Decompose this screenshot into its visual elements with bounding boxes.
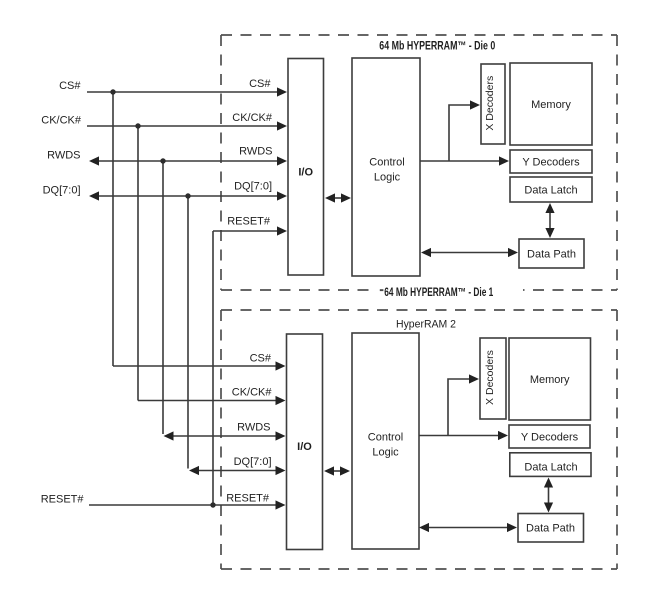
svg-text:Y Decoders: Y Decoders bbox=[521, 432, 579, 444]
svg-text:RWDS: RWDS bbox=[47, 150, 80, 162]
svg-text:Data Path: Data Path bbox=[527, 249, 576, 261]
svg-text:CK/CK#: CK/CK# bbox=[232, 112, 273, 124]
svg-text:CK/CK#: CK/CK# bbox=[41, 115, 82, 127]
svg-text:RWDS: RWDS bbox=[239, 146, 272, 158]
svg-text:CS#: CS# bbox=[249, 78, 271, 90]
svg-text:Logic: Logic bbox=[372, 447, 399, 459]
svg-text:Control: Control bbox=[368, 432, 403, 444]
svg-text:X Decoders: X Decoders bbox=[484, 76, 496, 131]
svg-text:64 Mb HYPERRAM™ - Die 0: 64 Mb HYPERRAM™ - Die 0 bbox=[379, 40, 495, 53]
svg-text:64 Mb HYPERRAM™ - Die 1: 64 Mb HYPERRAM™ - Die 1 bbox=[384, 286, 493, 299]
svg-text:RWDS: RWDS bbox=[237, 422, 270, 434]
svg-text:RESET#: RESET# bbox=[226, 493, 270, 505]
svg-text:Control: Control bbox=[369, 157, 404, 169]
svg-text:I/O: I/O bbox=[298, 167, 313, 179]
svg-text:DQ[7:0]: DQ[7:0] bbox=[234, 181, 272, 193]
svg-text:I/O: I/O bbox=[297, 441, 312, 453]
svg-text:Memory: Memory bbox=[531, 99, 571, 111]
svg-text:Y Decoders: Y Decoders bbox=[522, 157, 580, 169]
svg-text:HyperRAM 2: HyperRAM 2 bbox=[396, 319, 456, 331]
svg-text:RESET#: RESET# bbox=[227, 216, 271, 228]
svg-text:Logic: Logic bbox=[374, 172, 401, 184]
svg-text:DQ[7:0]: DQ[7:0] bbox=[234, 456, 272, 468]
svg-text:DQ[7:0]: DQ[7:0] bbox=[43, 185, 81, 197]
svg-text:Data Latch: Data Latch bbox=[524, 185, 577, 197]
svg-text:CK/CK#: CK/CK# bbox=[232, 387, 273, 399]
svg-text:Memory: Memory bbox=[530, 374, 570, 386]
svg-text:X Decoders: X Decoders bbox=[484, 350, 496, 405]
svg-text:Data Latch: Data Latch bbox=[524, 462, 577, 474]
svg-text:Data Path: Data Path bbox=[526, 523, 575, 535]
svg-text:CS#: CS# bbox=[59, 80, 81, 92]
svg-text:CS#: CS# bbox=[250, 353, 272, 365]
svg-text:RESET#: RESET# bbox=[41, 494, 85, 506]
